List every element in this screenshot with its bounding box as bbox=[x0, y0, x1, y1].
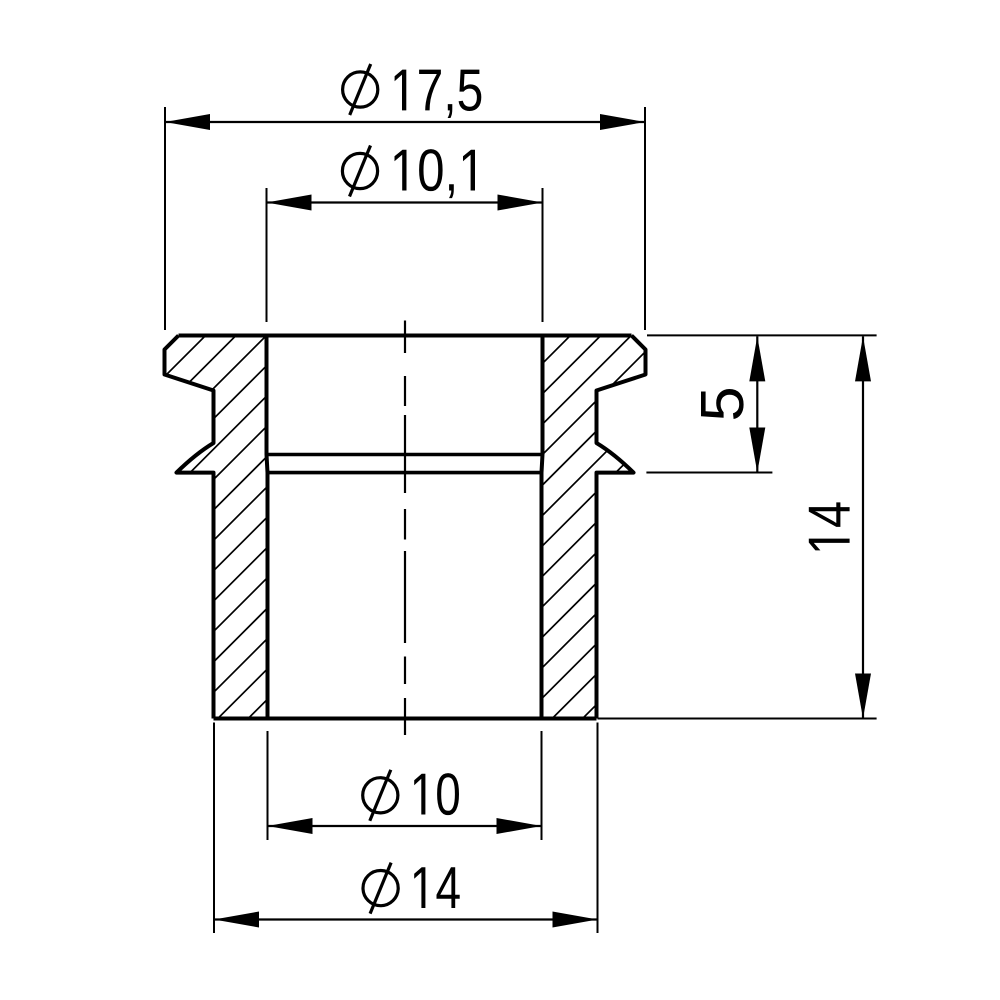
section hatching, right wall bbox=[176, 325, 1000, 730]
dim Ø10 right extension line bbox=[541, 731, 543, 840]
dim Ø17,5 value text "17,5" bbox=[395, 70, 482, 118]
dim Ø14 left arrowhead bbox=[214, 912, 259, 928]
dim 14 dimension line bbox=[862, 336, 864, 718]
dim Ø17,5 left arrowhead bbox=[165, 114, 210, 130]
dim Ø10,1 left arrowhead bbox=[267, 195, 312, 211]
dim 5 dimension line bbox=[756, 336, 758, 472]
dim Ø10 value text "10" bbox=[414, 773, 459, 815]
dim Ø14 diameter symbol bbox=[363, 863, 398, 914]
dim 14 value text "14" (rotated) bbox=[809, 502, 850, 550]
dim Ø10,1 right extension line bbox=[542, 188, 544, 322]
dim Ø17,5 diameter symbol bbox=[343, 64, 378, 115]
vertical center line (dash-dot) bbox=[404, 321, 406, 736]
dim Ø14 left extension line bbox=[213, 723, 215, 934]
dim Ø17,5 left extension line bbox=[164, 107, 166, 330]
dim Ø14 right extension line bbox=[597, 723, 599, 934]
dim Ø17,5 right extension line bbox=[644, 107, 646, 330]
dim Ø14 value text "14" bbox=[414, 867, 460, 908]
dim Ø10,1 left extension line bbox=[266, 188, 268, 322]
dim Ø10 left arrowhead bbox=[268, 818, 313, 834]
dim Ø14 dimension line bbox=[214, 918, 598, 920]
dim Ø10 diameter symbol bbox=[363, 770, 398, 821]
dim Ø10 right arrowhead bbox=[497, 818, 542, 834]
left outer profile: chamfer, flange, taper, wall, barb bbox=[165, 336, 214, 719]
dim 14 lower arrowhead bbox=[855, 674, 871, 719]
top extension line for dims 5 and 14 bbox=[647, 334, 877, 336]
dim Ø14 right arrowhead bbox=[553, 912, 598, 928]
section hatching, left wall bbox=[0, 325, 672, 730]
part top face edge bbox=[179, 334, 632, 338]
dim Ø17,5 dimension line bbox=[165, 121, 645, 123]
dim 14 upper arrowhead bbox=[855, 336, 871, 381]
extension line at 5 mm level bbox=[646, 472, 772, 474]
dim Ø10,1 right arrowhead bbox=[498, 195, 543, 211]
dim Ø10,1 diameter symbol bbox=[342, 146, 377, 197]
bore right wall bbox=[542, 336, 543, 719]
dim Ø10,1 dimension line bbox=[267, 201, 543, 203]
internal groove bottom edge bbox=[268, 471, 542, 475]
dim Ø10,1 value text "10,1" bbox=[395, 149, 476, 198]
dim 5 value text "5" (rotated) bbox=[701, 389, 744, 419]
right outer profile: chamfer, flange, taper, wall, barb bbox=[597, 336, 646, 719]
dim Ø10 left extension line bbox=[267, 731, 269, 840]
dim Ø10 dimension line bbox=[268, 825, 542, 827]
internal groove top edge bbox=[267, 453, 543, 457]
dim Ø17,5 right arrowhead bbox=[600, 114, 645, 130]
bore left wall bbox=[267, 336, 268, 719]
bottom extension line for dim 14 bbox=[598, 718, 877, 720]
dim 5 lower arrowhead bbox=[749, 428, 765, 473]
dim 5 upper arrowhead bbox=[749, 336, 765, 381]
part bottom face edge bbox=[214, 717, 597, 721]
